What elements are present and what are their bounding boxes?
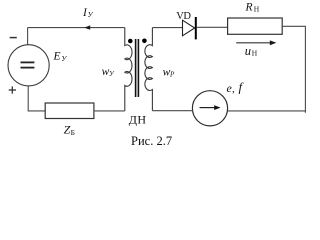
resistor RН <box>228 18 283 34</box>
diode VD cathode bar <box>195 17 197 39</box>
transformer core <box>135 39 137 97</box>
wire left vertical bottom <box>27 86 29 111</box>
plus sign <box>9 89 16 91</box>
svg-text:Н: Н <box>254 5 260 14</box>
wire bottom-left to ZБ <box>28 110 46 112</box>
arrow uН <box>236 42 271 44</box>
minus sign <box>10 37 17 39</box>
svg-text:VD: VD <box>176 11 191 22</box>
wire bottom-right horizontal <box>228 110 306 112</box>
source EУ circle <box>8 45 49 86</box>
svg-text:ДН: ДН <box>129 112 147 126</box>
wire ZБ to winding <box>94 110 125 112</box>
svg-text:f: f <box>239 80 245 95</box>
wire diode to RН <box>197 26 228 28</box>
polarity dot right <box>142 39 147 44</box>
source EУ equals-bars <box>21 61 35 63</box>
wire winding to diode <box>152 27 182 29</box>
svg-text:Р: Р <box>169 71 175 79</box>
wire left vertical top (to source) <box>27 28 29 45</box>
wire RН to right corner <box>282 25 306 27</box>
svg-text:R: R <box>245 2 253 14</box>
svg-text:Z: Z <box>64 123 71 137</box>
polarity dot left <box>128 39 133 44</box>
wire right vertical <box>304 26 306 113</box>
svg-text:E: E <box>53 51 61 63</box>
svg-text:,: , <box>232 83 235 95</box>
transformer winding wУ (primary) <box>125 28 132 111</box>
diode VD triangle <box>183 20 195 36</box>
svg-text:У: У <box>61 54 67 63</box>
svg-text:У: У <box>109 70 115 78</box>
wire top-left horizontal <box>28 27 125 29</box>
svg-text:У: У <box>88 10 94 19</box>
svg-text:u: u <box>245 44 251 58</box>
source e,f circle <box>192 91 227 126</box>
arrow current IУ (points left) <box>84 25 90 29</box>
svg-text:Б: Б <box>71 128 75 137</box>
svg-text:Рис. 2.7: Рис. 2.7 <box>131 134 172 148</box>
transformer winding wР (secondary) <box>145 28 153 111</box>
resistor ZБ <box>45 103 94 119</box>
wire winding to e,f source <box>152 110 192 112</box>
source e,f arrow <box>200 107 216 109</box>
svg-text:Н: Н <box>252 49 258 58</box>
